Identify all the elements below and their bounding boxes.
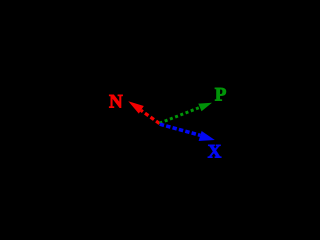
node: blue arrowhead of X axis bbox=[199, 131, 215, 141]
svg-text:N: N bbox=[109, 92, 123, 113]
svg-text:X: X bbox=[208, 142, 222, 163]
wire: blue dashed shaft of X axis bbox=[160, 124, 201, 135]
node: red arrowhead of N axis bbox=[128, 101, 144, 113]
wire: green dashed shaft of P axis bbox=[160, 107, 201, 123]
node: green arrowhead of P axis bbox=[198, 103, 212, 112]
wire: red dashed shaft of N axis bbox=[141, 110, 160, 123]
svg-text:P: P bbox=[215, 84, 227, 105]
